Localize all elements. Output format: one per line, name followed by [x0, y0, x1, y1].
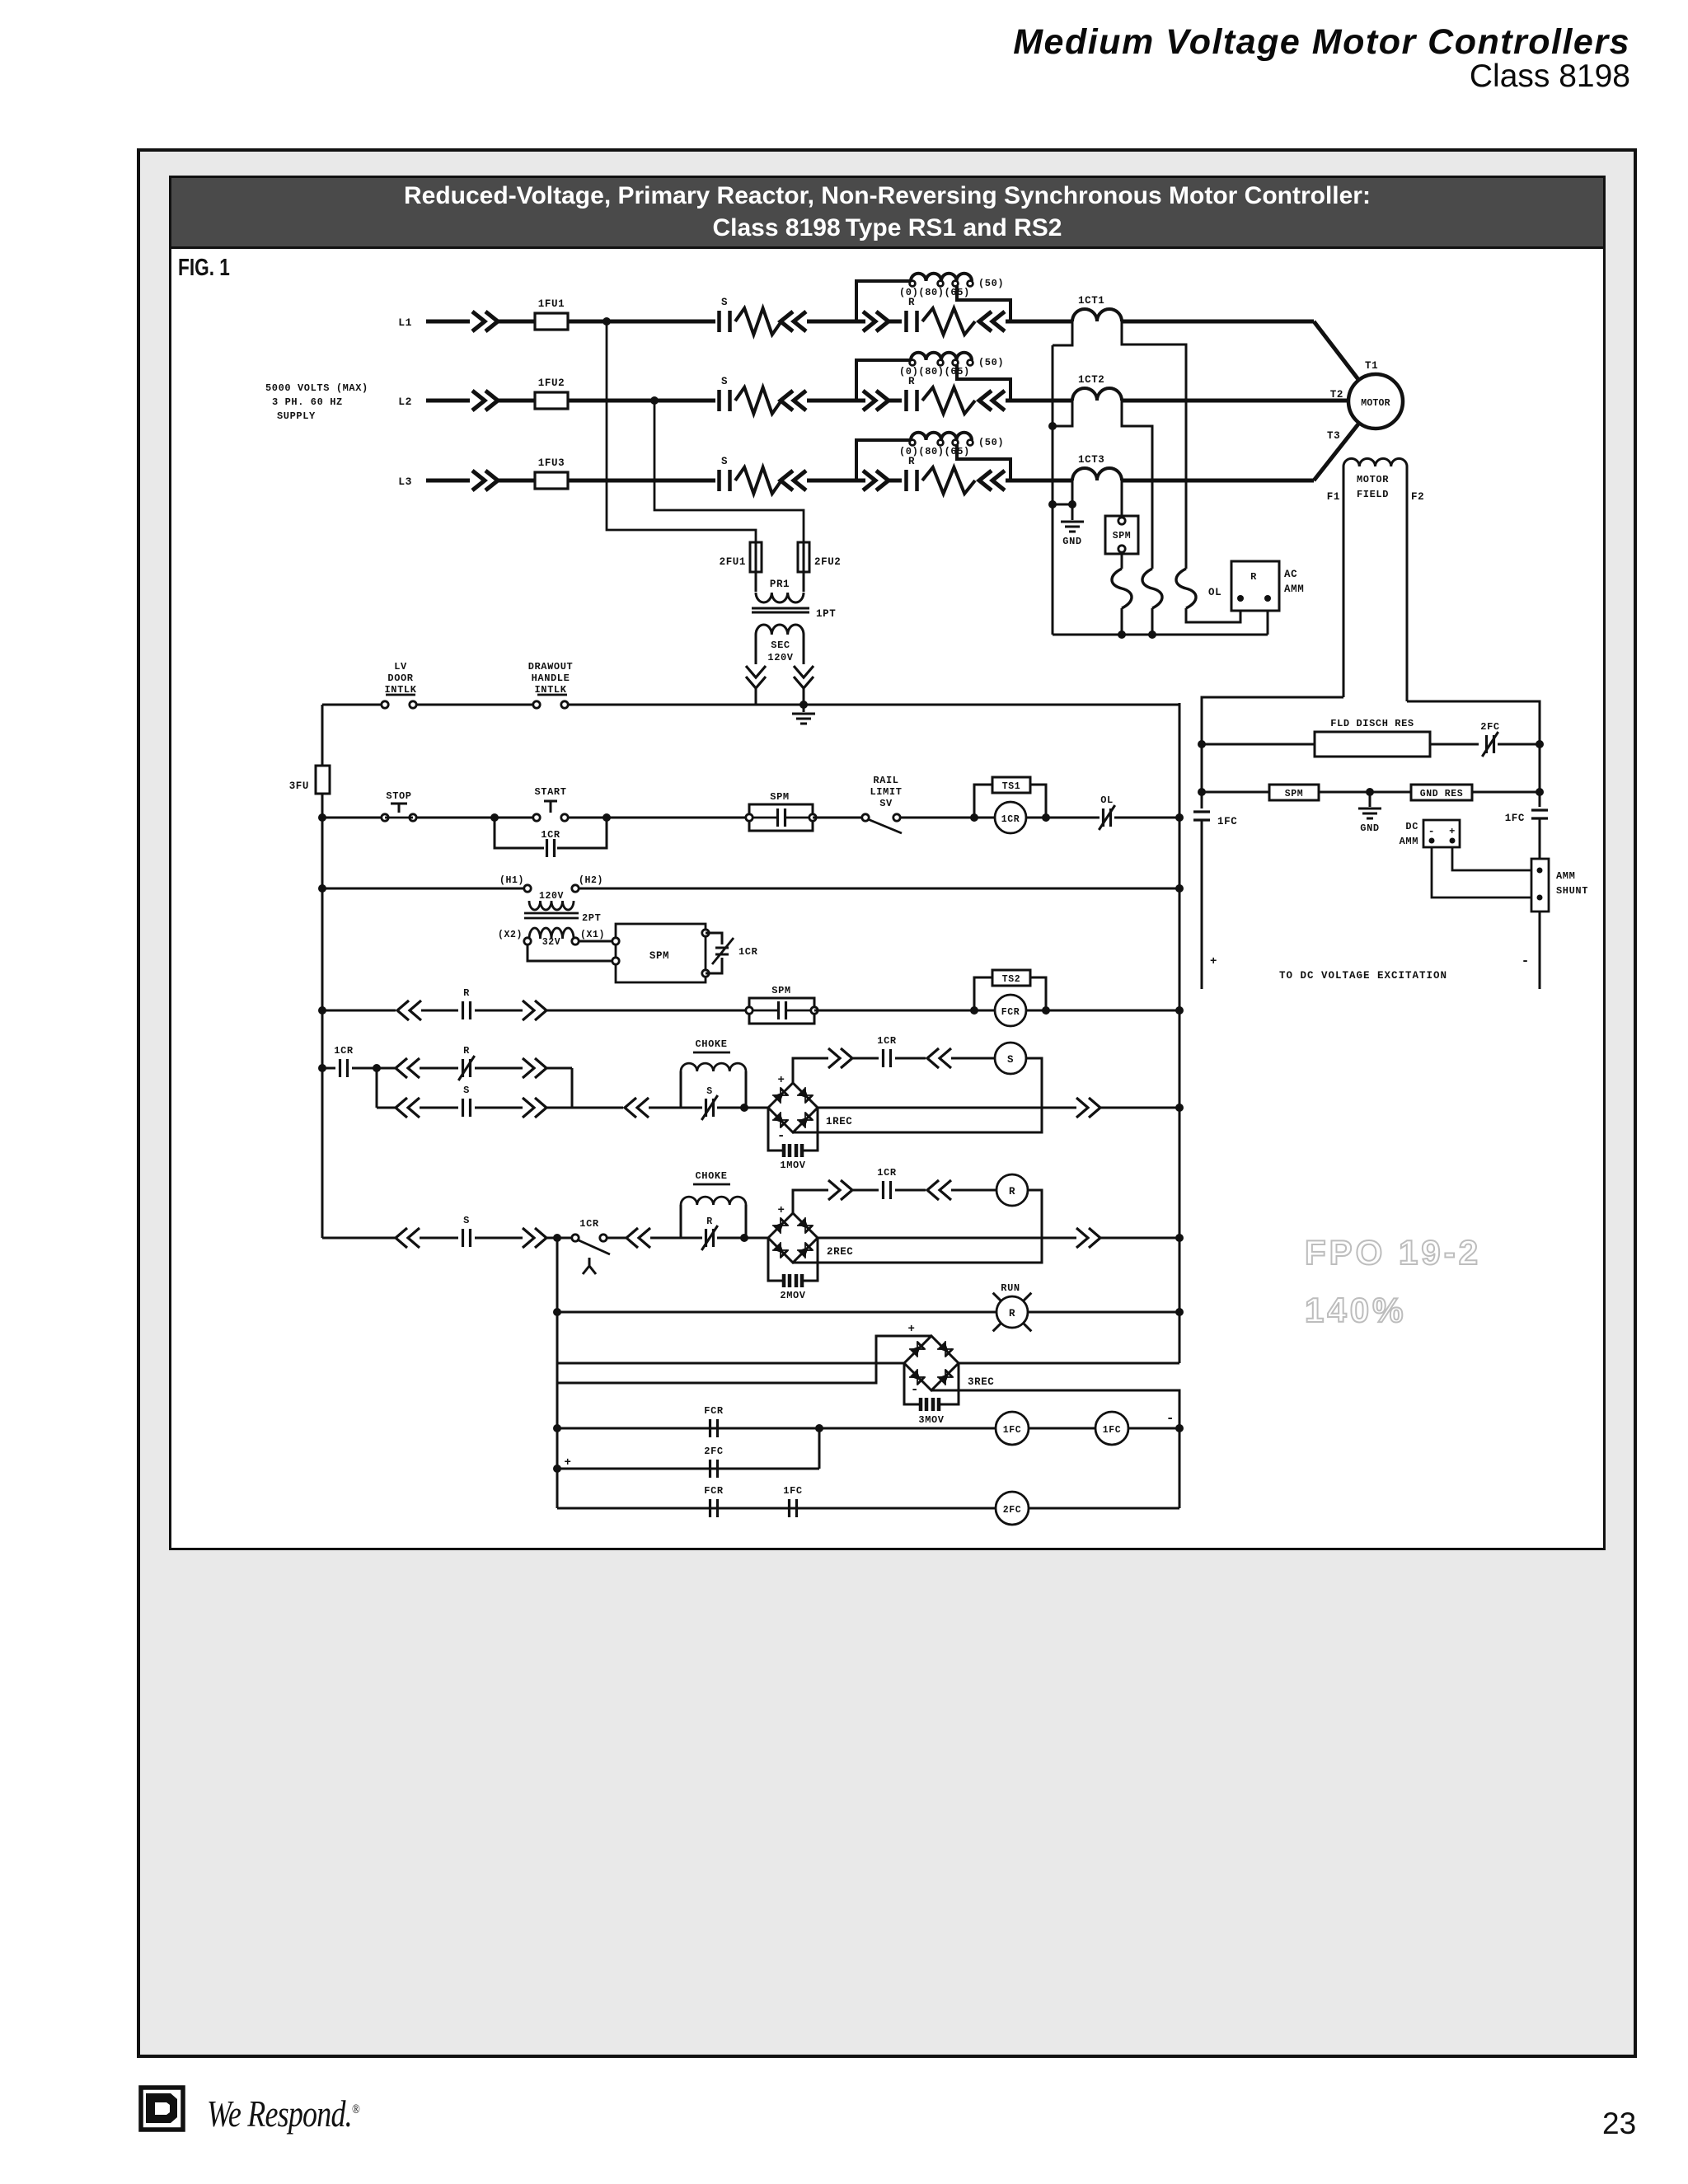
contact S L3: [720, 470, 730, 491]
svg-text:DRAWOUT: DRAWOUT: [528, 661, 574, 673]
drawout disconnect upper left: [396, 1058, 420, 1078]
svg-text:+: +: [1210, 955, 1217, 968]
svg-text:S: S: [463, 1085, 470, 1096]
wire to fld disch res: [1202, 743, 1315, 746]
drawout disconnect L1 reactor left: [863, 312, 889, 331]
contact FCR bottom: [710, 1499, 718, 1517]
junction run rung: [553, 1308, 561, 1316]
meter DC AMM: [1423, 820, 1460, 847]
CT return bus: [1053, 634, 1268, 636]
svg-text:+: +: [777, 1204, 785, 1217]
svg-text:INTLK: INTLK: [384, 684, 416, 696]
AC ammeter: [1231, 561, 1279, 611]
svg-text:5000 VOLTS (MAX): 5000 VOLTS (MAX): [265, 382, 368, 394]
svg-text:SHUNT: SHUNT: [1556, 885, 1588, 897]
junction TS1 right: [1042, 813, 1050, 822]
drawout disconnect lower left: [396, 1098, 420, 1118]
svg-text:S: S: [721, 456, 728, 467]
svg-text:S: S: [1007, 1054, 1014, 1066]
svg-text:1CR: 1CR: [1001, 814, 1020, 825]
wire 2FC link: [818, 1428, 821, 1469]
wire L2 to CT: [1006, 399, 1072, 403]
svg-text:FCR: FCR: [1001, 1007, 1020, 1018]
wire FCR rung b: [1029, 1427, 1095, 1430]
drawout disconnect rung4 left: [397, 1001, 421, 1020]
svg-text:-: -: [1522, 954, 1530, 968]
contact R NC in choke path: [706, 1229, 714, 1247]
junction rung6 drop: [553, 1234, 561, 1242]
svg-text:3FU: 3FU: [289, 780, 309, 792]
wire rung4 c: [475, 1010, 523, 1012]
wire 2FC to F2 rail: [1498, 743, 1540, 746]
drawout disconnect upper right: [523, 1058, 546, 1078]
contact S L1: [720, 311, 730, 332]
svg-text:R: R: [908, 456, 915, 467]
svg-text:1FU3: 1FU3: [538, 457, 565, 469]
wire PT secondary right lead: [803, 635, 805, 664]
wire 2PT X2 to SPM: [527, 944, 616, 961]
fuse 1FU1: [535, 313, 568, 330]
reactor tap return L3: [957, 445, 1010, 480]
wire 2REC ac out: [818, 1237, 1076, 1240]
wire rung6 from rail: [321, 1237, 324, 1240]
junction 2FC rung left: [553, 1465, 561, 1473]
svg-text:LIMIT: LIMIT: [870, 786, 902, 798]
wire OL2 to bus: [1151, 608, 1154, 635]
resistor element L3: [922, 467, 975, 494]
knife contact 1CR timed: [572, 1235, 579, 1241]
wire SPM to OL1: [1121, 554, 1123, 569]
timer contact TS2 bypass: [974, 977, 992, 1010]
drawout disconnect rung6 c: [626, 1228, 650, 1248]
svg-text:RAIL: RAIL: [873, 775, 898, 786]
svg-text:1FC: 1FC: [1505, 813, 1525, 824]
contactor coil S: [995, 1043, 1026, 1074]
svg-text:FIELD: FIELD: [1357, 489, 1389, 500]
svg-text:TO DC VOLTAGE EXCITATION: TO DC VOLTAGE EXCITATION: [1279, 970, 1447, 982]
wire gnd res to F2 rail: [1472, 791, 1540, 794]
svg-text:1CR: 1CR: [738, 946, 758, 958]
junction L2 tap: [650, 396, 659, 405]
svg-text:PR1: PR1: [770, 579, 790, 590]
svg-text:-: -: [911, 1382, 919, 1397]
drawout disconnect S rung right: [927, 1048, 951, 1068]
wire L1 after CT: [1122, 320, 1314, 324]
SPM box rung2: [749, 804, 813, 831]
svg-text:2PT: 2PT: [582, 912, 601, 924]
wire rung2 b: [416, 817, 533, 819]
junction field ground: [1366, 788, 1374, 796]
reactor tap return L2: [957, 365, 1010, 401]
motor M: [1348, 374, 1403, 429]
wire SPM to gnd res: [1319, 791, 1411, 794]
svg-text:-: -: [1428, 825, 1435, 837]
wire L1 to contactor: [568, 320, 715, 324]
svg-text:AMM: AMM: [1400, 836, 1418, 847]
junction 2REC rail: [1175, 1234, 1184, 1242]
junction rung5 split: [373, 1064, 381, 1072]
wire run rung to rail: [1028, 1311, 1179, 1314]
svg-text:CHOKE: CHOKE: [695, 1038, 727, 1050]
wire F2 lead: [1407, 701, 1540, 807]
wire R coil return: [793, 1190, 1042, 1263]
svg-text:AMM: AMM: [1284, 583, 1304, 595]
overload heater OL2: [1142, 569, 1162, 608]
svg-text:S: S: [721, 376, 728, 387]
svg-text:120V: 120V: [539, 891, 564, 902]
pilot light RUN R: [996, 1296, 1028, 1328]
wire CT1 secondary right: [1122, 321, 1186, 569]
wire rung6 b: [607, 1237, 626, 1240]
svg-text:SEC: SEC: [771, 640, 790, 651]
resistor element L2: [922, 387, 975, 414]
upper branch wire: [377, 1067, 396, 1070]
wire S coil return: [793, 1058, 1042, 1132]
ground field: [1369, 792, 1371, 807]
svg-text:1CR: 1CR: [579, 1218, 599, 1230]
wire DC AMM plus: [1452, 847, 1531, 870]
svg-text:2MOV: 2MOV: [780, 1290, 805, 1301]
svg-text:T1: T1: [1365, 360, 1378, 372]
transformer 1PT secondary: [756, 625, 804, 635]
svg-text:R: R: [463, 987, 470, 999]
wire rung5 a: [352, 1067, 377, 1070]
svg-text:1REC: 1REC: [826, 1116, 852, 1127]
resistor element L1: [922, 308, 975, 335]
svg-text:(X2): (X2): [498, 930, 523, 940]
drawout disconnect S rung left: [828, 1048, 852, 1068]
junction FCR rail: [1175, 1424, 1184, 1432]
right control rail: [1179, 703, 1181, 1363]
svg-text:F2: F2: [1411, 491, 1424, 503]
svg-text:AMM: AMM: [1556, 870, 1575, 882]
wire rung5 e: [717, 1107, 768, 1109]
arc element L2: [735, 387, 781, 414]
left control rail: [321, 705, 324, 1238]
svg-text:(50): (50): [978, 357, 1004, 368]
drawout disconnect L1 reactor right: [979, 312, 1005, 331]
svg-text:R: R: [463, 1045, 470, 1057]
svg-text:SUPPLY: SUPPLY: [277, 410, 316, 422]
wire rung6 e: [717, 1237, 768, 1240]
relay coil 1CR: [995, 802, 1026, 833]
wire 2REC out to rail: [1100, 1237, 1179, 1240]
Square D logo: [137, 2083, 236, 2182]
drawout disconnect 2REC out: [1076, 1228, 1100, 1248]
wire L2 after CT: [1122, 399, 1348, 403]
junction OL2 bus: [1148, 630, 1156, 639]
junction rung2 rail: [1175, 813, 1184, 822]
SPM box field: [1269, 785, 1319, 800]
junction TS2 right: [1042, 1006, 1050, 1015]
wire CT3 secondary right to SPM: [1121, 480, 1123, 516]
wire 2FC rung: [557, 1468, 819, 1470]
junction 1REC in: [740, 1104, 748, 1112]
wire 1REC out to rail: [1100, 1107, 1179, 1109]
svg-text:+: +: [907, 1323, 915, 1336]
svg-text:GND RES: GND RES: [1420, 789, 1464, 799]
svg-text:1FC: 1FC: [1217, 816, 1237, 827]
svg-text:S: S: [706, 1086, 713, 1097]
wire rung2 f: [1026, 817, 1100, 819]
junction rail rung2: [318, 813, 326, 822]
junction OL1 bus: [1118, 630, 1126, 639]
SPM box power: [1105, 516, 1138, 554]
svg-text:DOOR: DOOR: [387, 673, 413, 684]
svg-text:3MOV: 3MOV: [918, 1414, 944, 1426]
transformer 2PT secondary 32V: [529, 928, 574, 939]
contact S lower: [463, 1099, 471, 1117]
svg-text:SPM: SPM: [649, 950, 669, 962]
svg-text:1CT1: 1CT1: [1078, 295, 1104, 307]
svg-text:STOP: STOP: [386, 790, 411, 802]
svg-text:3 PH. 60 HZ: 3 PH. 60 HZ: [272, 396, 343, 408]
contact S L2: [720, 390, 730, 411]
drawout disconnect L3 reactor left: [863, 471, 889, 490]
junction FCR-2FC link: [815, 1424, 823, 1432]
wire L3 to CT: [1006, 479, 1072, 483]
drawout disconnect 1REC out: [1076, 1098, 1100, 1118]
svg-text:1FC: 1FC: [1003, 1425, 1022, 1436]
junction 2REC in: [740, 1234, 748, 1242]
drawout disconnect L2 line side: [472, 391, 498, 410]
wire CT common rail: [1052, 345, 1054, 635]
wire rung2 e: [900, 817, 995, 819]
svg-text:INTLK: INTLK: [534, 684, 566, 696]
svg-text:2FU2: 2FU2: [814, 556, 841, 568]
svg-text:T3: T3: [1327, 430, 1340, 442]
wire F2 to shunt: [1539, 818, 1541, 859]
wire L1 to CT: [1006, 320, 1072, 324]
fuse 2FU1: [750, 542, 762, 572]
junction F2 fld res: [1536, 740, 1544, 748]
svg-text:-: -: [1166, 1411, 1175, 1426]
svg-text:SPM: SPM: [1285, 789, 1304, 799]
wire L3 diagonal to motor T3: [1314, 422, 1360, 480]
fuse 1FU2: [535, 392, 568, 409]
svg-text:1MOV: 1MOV: [780, 1160, 805, 1171]
transformer 1PT primary PR1: [755, 572, 757, 592]
wire PT secondary left lead: [755, 635, 757, 664]
fuse 1FU3: [535, 472, 568, 489]
contact R L2: [907, 390, 917, 411]
relay coil FCR: [995, 995, 1026, 1026]
wire to 3REC ac left: [557, 1362, 904, 1365]
svg-text:1FU2: 1FU2: [538, 377, 565, 389]
wire L1 tap to 2FU1: [607, 321, 756, 542]
svg-text:HANDLE: HANDLE: [532, 673, 570, 684]
svg-text:TS1: TS1: [1002, 781, 1021, 792]
svg-text:2REC: 2REC: [827, 1246, 853, 1258]
contact R rung4: [463, 1001, 471, 1019]
svg-text:TS2: TS2: [1002, 974, 1021, 985]
wire L2 tap to 2FU2: [654, 401, 804, 542]
junction SPM row left: [1198, 788, 1206, 796]
reactor tap return L1: [957, 286, 1010, 321]
wire bottom rung: [557, 1507, 1179, 1510]
contact 1FC bottom: [790, 1499, 797, 1517]
svg-text:R: R: [908, 297, 915, 308]
drawout disconnect rung5 c: [625, 1098, 649, 1118]
wire rung2 a: [322, 817, 382, 819]
rectifier 3REC: [904, 1336, 959, 1390]
svg-text:START: START: [534, 786, 566, 798]
svg-text:SPM: SPM: [770, 791, 789, 803]
wire L3 after CT: [1122, 479, 1314, 483]
drawout disconnect L3 contactor side: [781, 471, 806, 490]
drawout disconnect L2 contactor side: [781, 391, 806, 410]
junction TS2 left: [970, 1006, 978, 1015]
junction 1REC rail: [1175, 1104, 1184, 1112]
wire 2REC dc+ to R coil rung: [793, 1190, 828, 1213]
svg-text:SV: SV: [879, 798, 893, 809]
drawout disconnect lower right: [523, 1098, 546, 1118]
capacitor 1FC field left: [1193, 812, 1210, 820]
svg-text:GND: GND: [1062, 536, 1081, 547]
wire OL1 to bus: [1121, 608, 1123, 635]
wire L3 main: [426, 479, 470, 483]
transformer 2PT primary 120V: [524, 885, 531, 892]
primary reactor coil L1: [856, 281, 911, 321]
svg-text:1CR: 1CR: [877, 1167, 897, 1179]
resistor GND RES: [1411, 785, 1472, 800]
wire rung5 b: [546, 1107, 623, 1109]
transformer 2PT core: [524, 912, 579, 915]
svg-text:1PT: 1PT: [816, 608, 836, 620]
junction rail rung5: [318, 1064, 326, 1072]
wire CT2 secondary left: [1053, 401, 1072, 426]
wire L2 main: [426, 399, 470, 403]
drawout disconnect L2 reactor left: [863, 391, 889, 410]
wire 1REC dc+ to S coil rung: [793, 1058, 828, 1083]
svg-text:FCR: FCR: [704, 1405, 724, 1417]
wire to 3REC dc+: [557, 1336, 931, 1383]
wire rung2 g: [1114, 817, 1179, 819]
rectifier 1REC: [768, 1083, 818, 1132]
svg-text:L1: L1: [398, 316, 412, 329]
svg-text:CHOKE: CHOKE: [695, 1170, 727, 1182]
svg-text:(H2): (H2): [579, 875, 603, 886]
svg-text:S: S: [463, 1215, 470, 1226]
transformer 1PT core: [752, 607, 809, 610]
svg-text:MOTOR: MOTOR: [1357, 474, 1389, 485]
junction field discharge res: [1198, 740, 1206, 748]
svg-text:S: S: [721, 297, 728, 308]
junction rung4 rail: [1175, 1006, 1184, 1015]
svg-text:SPM: SPM: [771, 985, 790, 996]
wire excitation minus: [1539, 912, 1541, 989]
drawout disconnect rung6 mid: [523, 1228, 546, 1248]
svg-text:1FU1: 1FU1: [538, 298, 565, 310]
SPM control box: [616, 924, 706, 982]
overload heater OL3: [1176, 569, 1196, 608]
svg-text:SPM: SPM: [1113, 531, 1132, 541]
contact 2FC rung8: [710, 1460, 718, 1478]
svg-text:F1: F1: [1327, 491, 1340, 503]
current transformer 1CT1: [1072, 309, 1122, 321]
junction 1CR branch right: [603, 813, 611, 822]
svg-text:L3: L3: [398, 476, 412, 488]
junction CT3 ground tap: [1068, 500, 1076, 509]
svg-text:32V: 32V: [542, 937, 561, 948]
svg-text:1CR: 1CR: [877, 1035, 897, 1047]
fuse 2FU2: [798, 542, 809, 572]
svg-text:R: R: [1009, 1308, 1015, 1319]
primary reactor coil L3: [856, 440, 911, 480]
overload contact OL NC: [1104, 808, 1111, 827]
wire rung5 d: [649, 1107, 702, 1109]
drawout disconnect L1 line side: [472, 312, 498, 331]
svg-text:AC: AC: [1284, 569, 1297, 580]
svg-text:1FC: 1FC: [1103, 1425, 1122, 1436]
wire OL3 to ammeter: [1186, 608, 1240, 622]
junction F2 gnd res: [1536, 788, 1544, 796]
interlock drawout handle: [533, 701, 540, 708]
wire upper branch to join: [546, 1067, 572, 1070]
wire FCR rung to rail: [1128, 1427, 1179, 1430]
relay coil 2FC: [996, 1492, 1029, 1525]
wire rung3 b: [575, 888, 1179, 890]
wire 3REC ac right to rail: [959, 1362, 1179, 1365]
wire L2 to contactor: [568, 399, 715, 403]
svg-text:MOTOR: MOTOR: [1361, 398, 1390, 409]
interlock LV door: [382, 701, 388, 708]
svg-text:-: -: [777, 1128, 785, 1143]
wire rung2 c: [568, 817, 749, 819]
contact 2FC NC: [1487, 735, 1494, 753]
wire rung4 f: [1026, 1010, 1179, 1012]
svg-text:OL: OL: [1100, 794, 1114, 806]
wire rung4 d: [546, 1010, 749, 1012]
ground PT secondary: [803, 705, 805, 712]
wire L3 to reactor section: [807, 479, 865, 483]
drawout disconnect L3 reactor right: [979, 471, 1005, 490]
timer contact TS1 bypass: [974, 785, 992, 818]
contact FCR rung7: [710, 1419, 718, 1437]
drawout disconnect PT left: [746, 666, 766, 688]
contact R NC upper: [463, 1059, 471, 1077]
variable capacitor 1CR trim: [706, 933, 722, 944]
contactor coil R: [996, 1174, 1028, 1206]
wire CT1 secondary left: [1053, 321, 1072, 345]
svg-text:+: +: [777, 1074, 785, 1087]
lower branch wire: [377, 1107, 396, 1109]
motor field winding: [1343, 466, 1345, 697]
capacitor 1FC field right: [1531, 810, 1548, 818]
svg-text:2FC: 2FC: [1480, 721, 1499, 733]
rectifier 2REC: [768, 1213, 818, 1263]
svg-text:(X1): (X1): [580, 930, 605, 940]
relay coil 1FC b: [1095, 1412, 1128, 1445]
wire DC AMM minus: [1432, 847, 1531, 898]
svg-text:R: R: [706, 1216, 713, 1227]
shunt AMM SHUNT: [1531, 859, 1549, 912]
wire 1REC ac out: [818, 1107, 1076, 1109]
svg-text:3REC: 3REC: [968, 1376, 994, 1388]
wire rung4 b: [421, 1010, 458, 1012]
svg-text:2FU1: 2FU1: [720, 556, 746, 568]
junction rung3 rail: [1175, 884, 1184, 893]
svg-text:2FC: 2FC: [704, 1446, 723, 1457]
wire left drop: [556, 1238, 559, 1508]
wire CT2 secondary right: [1122, 401, 1152, 569]
svg-text:+: +: [1449, 826, 1456, 837]
svg-text:RUN: RUN: [1001, 1282, 1020, 1294]
svg-text:L2: L2: [398, 396, 412, 408]
pushbutton STOP: [382, 814, 388, 821]
svg-text:2FC: 2FC: [1003, 1505, 1022, 1516]
junction L1 tap: [603, 317, 611, 326]
